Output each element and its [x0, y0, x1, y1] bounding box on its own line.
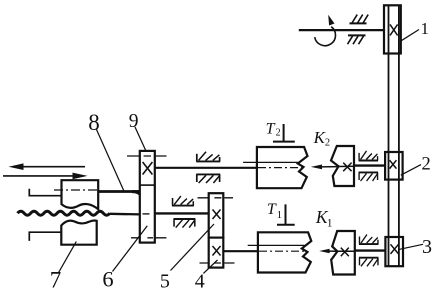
shaft III (gear4 to clutch K1) — [223, 250, 258, 252]
torque T1 symbol — [277, 204, 295, 224]
translation arrow right — [3, 173, 88, 180]
leader 8 — [97, 130, 124, 191]
K2 sleeve line — [243, 161, 300, 163]
leader 1 — [400, 30, 419, 42]
svg-text:2: 2 — [325, 137, 330, 148]
svg-text:8: 8 — [88, 110, 100, 135]
svg-text:3: 3 — [422, 236, 432, 258]
K1 centerline — [259, 250, 306, 252]
push rod 8 — [98, 190, 140, 193]
svg-text:T: T — [267, 201, 277, 218]
nut lower half (7) — [61, 220, 96, 244]
gear 5 — [209, 193, 224, 237]
shaft II (gear9 to clutch K2) — [155, 167, 258, 169]
pulley 3 — [385, 237, 403, 266]
K2 engage arrow — [311, 165, 339, 170]
lead screw wavy shaft — [18, 211, 110, 215]
clutch K1 drum block — [258, 232, 311, 272]
svg-text:1: 1 — [277, 209, 283, 221]
clutch K1 right half — [331, 231, 355, 275]
K1 hub shaft line — [338, 250, 355, 252]
svg-text:9: 9 — [129, 111, 139, 132]
K1 engage arrow — [319, 249, 337, 254]
clutch K2 right half — [331, 146, 354, 186]
belt left line — [388, 5, 390, 266]
belt right line — [398, 5, 400, 266]
torque T2 symbol — [273, 124, 295, 142]
pulley 2 — [385, 152, 403, 180]
screw shaft solid (box6 to gear5) — [155, 212, 209, 214]
pulley 1 X — [390, 24, 398, 35]
bearing bottom of input shaft — [348, 35, 366, 44]
pulley 2 X — [390, 160, 397, 168]
guide bracket lower — [29, 232, 61, 241]
svg-text:T: T — [266, 121, 276, 138]
screw centerline dash in 6 — [143, 213, 150, 215]
nut centerline — [54, 189, 97, 191]
K1 sleeve line — [248, 244, 305, 246]
svg-text:6: 6 — [102, 266, 113, 291]
bearing pair on screw shaft — [172, 196, 194, 206]
shaft K2 to pulley2 — [354, 164, 385, 166]
screw plain section — [110, 213, 140, 216]
leader 6 — [113, 226, 148, 272]
gear 9 X — [143, 162, 153, 175]
translation arrow left — [9, 163, 86, 170]
clutch K2 drum block — [257, 147, 308, 188]
K2 centerline — [258, 167, 302, 169]
K2 hub shaft line — [339, 165, 354, 167]
leader 4 — [203, 260, 217, 273]
gear 4 — [209, 238, 224, 268]
svg-text:7: 7 — [50, 268, 62, 293]
divider gear9/block6 — [140, 184, 155, 186]
guide bracket upper — [29, 189, 61, 196]
nut upper half (7) — [62, 180, 99, 209]
K1 right half X — [341, 248, 349, 257]
svg-text:5: 5 — [160, 270, 170, 292]
slide block 6 — [140, 151, 155, 243]
bearing pair on shaft II — [196, 152, 220, 162]
bearing top of input shaft — [350, 15, 369, 24]
svg-text:2: 2 — [276, 128, 281, 139]
pulley 1 — [384, 5, 401, 53]
svg-text:2: 2 — [422, 155, 431, 175]
leader 5 — [171, 224, 215, 271]
rotation arrow — [315, 27, 336, 46]
svg-text:1: 1 — [327, 218, 333, 230]
bearing pair right of K2 — [359, 151, 378, 161]
K2 right half X — [343, 163, 351, 172]
leader 2 — [401, 165, 421, 176]
gear 4 X — [213, 246, 221, 256]
pulley 3 X — [391, 244, 399, 254]
gear 5 X — [213, 210, 221, 220]
leader 3 — [400, 244, 424, 249]
svg-text:4: 4 — [195, 271, 205, 293]
position line top of 6 — [127, 155, 167, 157]
leader 7 — [59, 242, 77, 273]
rod fillet — [132, 190, 141, 202]
position line top of 5 — [198, 197, 234, 199]
leader 9 — [135, 127, 146, 152]
position line bottom of 4 — [200, 262, 235, 264]
position line bottom of 6 — [131, 237, 166, 239]
bearing pair right of K1 — [359, 235, 378, 245]
svg-text:1: 1 — [421, 19, 430, 38]
shaft K1 to pulley3 — [355, 249, 385, 251]
top input shaft — [299, 29, 384, 31]
